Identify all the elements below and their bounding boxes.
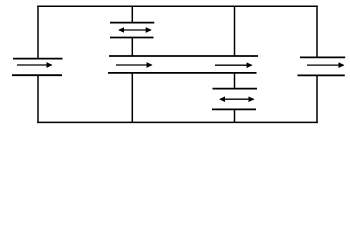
wire branch B lower (C4 bottom plate to bottom rail) <box>234 109 236 122</box>
wire branch A lower (C3 bottom plate to bottom rail) <box>131 73 133 123</box>
wire left branch lower <box>37 75 39 123</box>
capacitor C2 top middle, top plate <box>110 22 154 24</box>
capacitor C3 middle long, bottom plate <box>108 72 257 74</box>
wire top rail <box>37 5 318 7</box>
wire branch A middle (C2 bottom plate to C3 top plate) <box>131 38 133 57</box>
capacitor C3 middle long, top plate <box>109 55 258 57</box>
capacitor C1 left, top plate <box>13 58 63 60</box>
capacitor C2 top middle, bottom plate <box>110 37 154 39</box>
capacitor C5 right, top plate <box>300 56 345 58</box>
wire branch A upper (top rail to C2 top plate) <box>131 6 133 22</box>
wire right branch upper <box>316 6 318 58</box>
wire branch B upper (top rail to C3 top plate) <box>234 6 236 56</box>
capacitor C1 left, bottom plate <box>12 74 62 76</box>
capacitor C4 lower right, top plate <box>213 88 258 90</box>
wire right branch lower <box>316 75 318 123</box>
wire bottom rail <box>37 121 318 123</box>
arrow in C1 (right) <box>17 64 52 66</box>
wire left branch upper <box>37 6 39 59</box>
arrow in C3 left (right) <box>116 64 152 66</box>
double arrow in C4 <box>220 98 254 100</box>
double arrow in C2 <box>119 29 151 31</box>
capacitor C4 lower right, bottom plate <box>212 108 256 110</box>
arrow in C3 right (right) <box>215 64 252 66</box>
arrow in C5 (right) <box>307 64 344 66</box>
capacitor C5 right, bottom plate <box>298 74 345 76</box>
wire branch B middle (C3 bottom plate to C4 top plate) <box>234 73 236 89</box>
